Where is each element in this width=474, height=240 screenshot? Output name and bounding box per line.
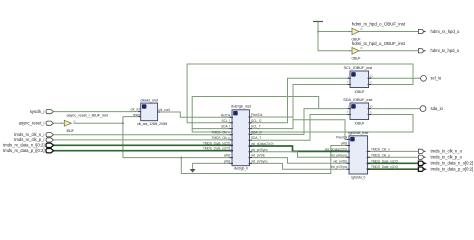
input port tmds_rx_clk_n_i bbox=[14, 132, 53, 137]
svg-text:hdmi_rx_hpd_o_OBUF_inst: hdmi_rx_hpd_o_OBUF_inst bbox=[352, 22, 406, 27]
svg-text:clk_wiz_125M_200M: clk_wiz_125M_200M bbox=[137, 122, 167, 126]
svg-text:PixelClk: PixelClk bbox=[336, 136, 348, 140]
wire async_reset_i to IBUF bbox=[54, 122, 64, 124]
block clkwiz_inst (clk_wiz_125M_200M) bbox=[131, 99, 171, 127]
dvi2rgb right pins bbox=[249, 117, 253, 163]
svg-text:pRst: pRst bbox=[224, 159, 231, 163]
svg-text:tmds_rx_data_p_i[0:2]: tmds_rx_data_p_i[0:2] bbox=[3, 148, 44, 153]
svg-text:hdmi_rx_hpd_o: hdmi_rx_hpd_o bbox=[431, 29, 461, 34]
svg-text:SCL_T: SCL_T bbox=[251, 125, 261, 129]
svg-text:+: + bbox=[352, 105, 354, 109]
svg-text:IBUF: IBUF bbox=[67, 129, 74, 133]
svg-text:dvi2rgb_0: dvi2rgb_0 bbox=[234, 166, 248, 170]
svg-text:TMDS_Data_n(2:0): TMDS_Data_n(2:0) bbox=[203, 141, 230, 145]
svg-text:sysclk_i: sysclk_i bbox=[30, 109, 45, 114]
wire vid_pVSync bbox=[250, 163, 350, 169]
svg-text:tmds_tx_clk_p_o: tmds_tx_clk_p_o bbox=[431, 155, 463, 160]
svg-text:vid_pVDE: vid_pVDE bbox=[333, 159, 347, 163]
wire scl_io bbox=[369, 77, 421, 79]
svg-text:RefClk: RefClk bbox=[221, 113, 231, 117]
svg-text:rgb2dvi_0: rgb2dvi_0 bbox=[351, 176, 365, 180]
svg-text:tmds_rx_clk_p_i: tmds_rx_clk_p_i bbox=[14, 137, 44, 142]
wire SDA top route (SDA_I feed) bbox=[192, 97, 350, 129]
svg-text:TMDS_Clk_n: TMDS_Clk_n bbox=[212, 131, 231, 135]
svg-text:+: + bbox=[351, 138, 353, 142]
svg-text:TMDS_Data_p(2:0): TMDS_Data_p(2:0) bbox=[203, 147, 230, 151]
block SCL_IOBUF_inst bbox=[344, 66, 374, 94]
wire clk_out1 to RefClk bbox=[158, 112, 232, 117]
output port tmds_tx_clk_n_o bbox=[418, 149, 462, 154]
svg-text:scl_io: scl_io bbox=[431, 76, 442, 81]
input port async_reset_i bbox=[19, 120, 54, 125]
svg-text:TMDS_Clk_p: TMDS_Clk_p bbox=[212, 136, 231, 140]
output bus port tmds_tx_data_p_o[0:2] bbox=[418, 167, 473, 172]
svg-text:clk_out1: clk_out1 bbox=[159, 108, 171, 112]
svg-text:rgb2dvi_inst: rgb2dvi_inst bbox=[348, 131, 369, 135]
block SDA_IOBUF_inst bbox=[343, 98, 373, 126]
svg-text:vid_pData(23:0): vid_pData(23:0) bbox=[251, 142, 273, 146]
svg-text:IO: IO bbox=[370, 75, 373, 78]
wire tmds_tx_clk_n_o bbox=[368, 150, 418, 152]
svg-text:SDA_O: SDA_O bbox=[251, 130, 262, 134]
svg-text:tmds_tx_data_n_o[0:2]: tmds_tx_data_n_o[0:2] bbox=[431, 161, 474, 166]
wire tmds_rx_clk_n_i bbox=[54, 134, 232, 136]
wire aRst bottom route to rgb2dvi bbox=[181, 146, 349, 174]
input bus port tmds_rx_data_n_i[0:2] bbox=[3, 143, 54, 148]
wire sda_io bbox=[369, 108, 420, 110]
wire vid_pHSync bbox=[250, 152, 350, 158]
svg-text:tmds_tx_data_p_o[0:2]: tmds_tx_data_p_o[0:2] bbox=[431, 167, 474, 172]
svg-text:vid_pData(23:0): vid_pData(23:0) bbox=[325, 147, 347, 151]
svg-text:TMDS_Clk_n: TMDS_Clk_n bbox=[371, 147, 390, 151]
svg-text:TMDS_Data_p(2:0): TMDS_Data_p(2:0) bbox=[371, 165, 398, 169]
wire tmds_rx_clk_p_i bbox=[54, 139, 232, 141]
svg-text:dvi2rgb_inst: dvi2rgb_inst bbox=[231, 104, 252, 108]
svg-text:clkwiz_inst: clkwiz_inst bbox=[140, 99, 159, 103]
svg-text:O: O bbox=[361, 28, 363, 31]
output bus port tmds_tx_data_n_o[0:2] bbox=[418, 161, 473, 166]
ground symbol bbox=[190, 169, 196, 173]
svg-text:vid_pHSync: vid_pHSync bbox=[251, 148, 268, 152]
input bus port tmds_rx_data_p_i[0:2] bbox=[3, 148, 54, 153]
svg-text:tmds_rx_data_n_i[0:2]: tmds_rx_data_n_i[0:2] bbox=[3, 143, 44, 148]
svg-text:IO: IO bbox=[370, 106, 373, 109]
svg-text:tmds_tx_clk_n_o: tmds_tx_clk_n_o bbox=[431, 149, 463, 154]
svg-text:sda_io: sda_io bbox=[431, 106, 444, 111]
svg-text:O: O bbox=[361, 47, 363, 50]
svg-text:O: O bbox=[370, 82, 372, 85]
wire OBUF1 out bbox=[359, 31, 419, 33]
bus tmds_tx_data_p_o bbox=[368, 168, 418, 170]
svg-text:clk_ref: clk_ref bbox=[131, 108, 140, 112]
svg-text:SDA_I: SDA_I bbox=[221, 125, 230, 129]
buffer IBUF async_reset_i_IBUF_inst bbox=[62, 113, 109, 132]
svg-text:reset: reset bbox=[133, 113, 140, 117]
bus vid_pData bbox=[250, 146, 350, 151]
power vcc stem bbox=[317, 22, 319, 51]
svg-text:IOBUF: IOBUF bbox=[355, 122, 365, 126]
svg-text:+: + bbox=[143, 105, 145, 109]
svg-text:IOBUF: IOBUF bbox=[355, 90, 365, 94]
wire sysclk_i to clk_ref bbox=[54, 111, 141, 113]
svg-text:PixelClk: PixelClk bbox=[251, 113, 263, 117]
svg-text:SCL_I: SCL_I bbox=[222, 119, 231, 123]
bus tmds_tx_data_n_o bbox=[368, 162, 418, 164]
svg-text:SDA_T: SDA_T bbox=[251, 136, 261, 140]
svg-text:aRst: aRst bbox=[224, 154, 231, 158]
svg-text:vid_pVSync: vid_pVSync bbox=[251, 159, 268, 163]
junction reset net bbox=[122, 122, 124, 124]
svg-text:O: O bbox=[370, 112, 372, 115]
wire SCL loop return (IOBUF O to SCL_I) bbox=[187, 64, 413, 123]
bus tmds_rx_data_p_i bbox=[54, 150, 232, 152]
svg-text:+: + bbox=[234, 112, 236, 116]
input port sysclk_i bbox=[30, 109, 54, 114]
svg-text:vid_pVSync: vid_pVSync bbox=[331, 165, 348, 169]
wire vid_pVDE bbox=[250, 158, 350, 164]
svg-text:OBUF: OBUF bbox=[352, 57, 361, 61]
svg-text:hdmi_tx_hpd_o: hdmi_tx_hpd_o bbox=[431, 48, 460, 53]
wire SCL_O to IOBUF I bbox=[250, 78, 351, 123]
block rgb2dvi_inst bbox=[348, 131, 369, 180]
inout port scl_io bbox=[421, 75, 442, 81]
output port hdmi_tx_hpd_o bbox=[418, 48, 459, 53]
svg-text:SCL_IOBUF_inst: SCL_IOBUF_inst bbox=[344, 66, 374, 70]
wire tmds_tx_clk_p_o bbox=[368, 156, 418, 158]
wire OBUF2 out bbox=[359, 50, 419, 52]
wire vcc to OBUF1 bbox=[318, 31, 352, 33]
svg-text:hdmi_tx_hpd_o_OBUF_inst: hdmi_tx_hpd_o_OBUF_inst bbox=[352, 41, 406, 46]
svg-text:SCL_O: SCL_O bbox=[251, 119, 262, 123]
rgb2dvi left pins bbox=[347, 140, 351, 170]
rgb2dvi right pins bbox=[367, 151, 371, 169]
wire SDA_T to IOBUF T bbox=[250, 115, 351, 141]
svg-text:vid_pVDE: vid_pVDE bbox=[251, 154, 265, 158]
svg-text:aRst: aRst bbox=[341, 142, 348, 146]
svg-text:TMDS_Clk_p: TMDS_Clk_p bbox=[371, 153, 390, 157]
svg-text:O: O bbox=[74, 121, 76, 124]
wire pRst to ground bbox=[193, 163, 232, 169]
buffer OBUF hdmi_rx_hpd_o_OBUF_inst bbox=[350, 22, 406, 42]
svg-text:vid_pHSync: vid_pHSync bbox=[330, 153, 347, 157]
output port tmds_tx_clk_p_o bbox=[418, 155, 462, 160]
svg-text:async_reset_i_IBUF_inst: async_reset_i_IBUF_inst bbox=[67, 113, 109, 117]
wire vcc to OBUF2 bbox=[318, 50, 352, 52]
svg-text:SDA_IOBUF_inst: SDA_IOBUF_inst bbox=[343, 98, 373, 102]
svg-text:+: + bbox=[352, 73, 354, 77]
wire SCL_T to IOBUF T bbox=[250, 85, 351, 129]
output port hdmi_rx_hpd_o bbox=[418, 29, 460, 34]
input port tmds_rx_clk_p_i bbox=[14, 137, 53, 142]
dvi2rgb left pins bbox=[230, 117, 234, 163]
svg-text:TMDS_Data_n(2:0): TMDS_Data_n(2:0) bbox=[371, 159, 398, 163]
wire SDA_O to IOBUF I bbox=[250, 109, 319, 135]
svg-text:async_reset_i: async_reset_i bbox=[19, 120, 45, 125]
block dvi2rgb_inst bbox=[231, 104, 252, 170]
wire PixelClk to rgb2dvi bbox=[250, 117, 350, 140]
buffer OBUF hdmi_tx_hpd_o_OBUF_inst bbox=[350, 41, 406, 61]
wire SDA return (IOBUF O) bbox=[192, 115, 413, 133]
wire IBUF out / reset net bbox=[74, 122, 123, 124]
inout port sda_io bbox=[420, 106, 443, 112]
bus tmds_rx_data_n_i bbox=[54, 144, 232, 146]
